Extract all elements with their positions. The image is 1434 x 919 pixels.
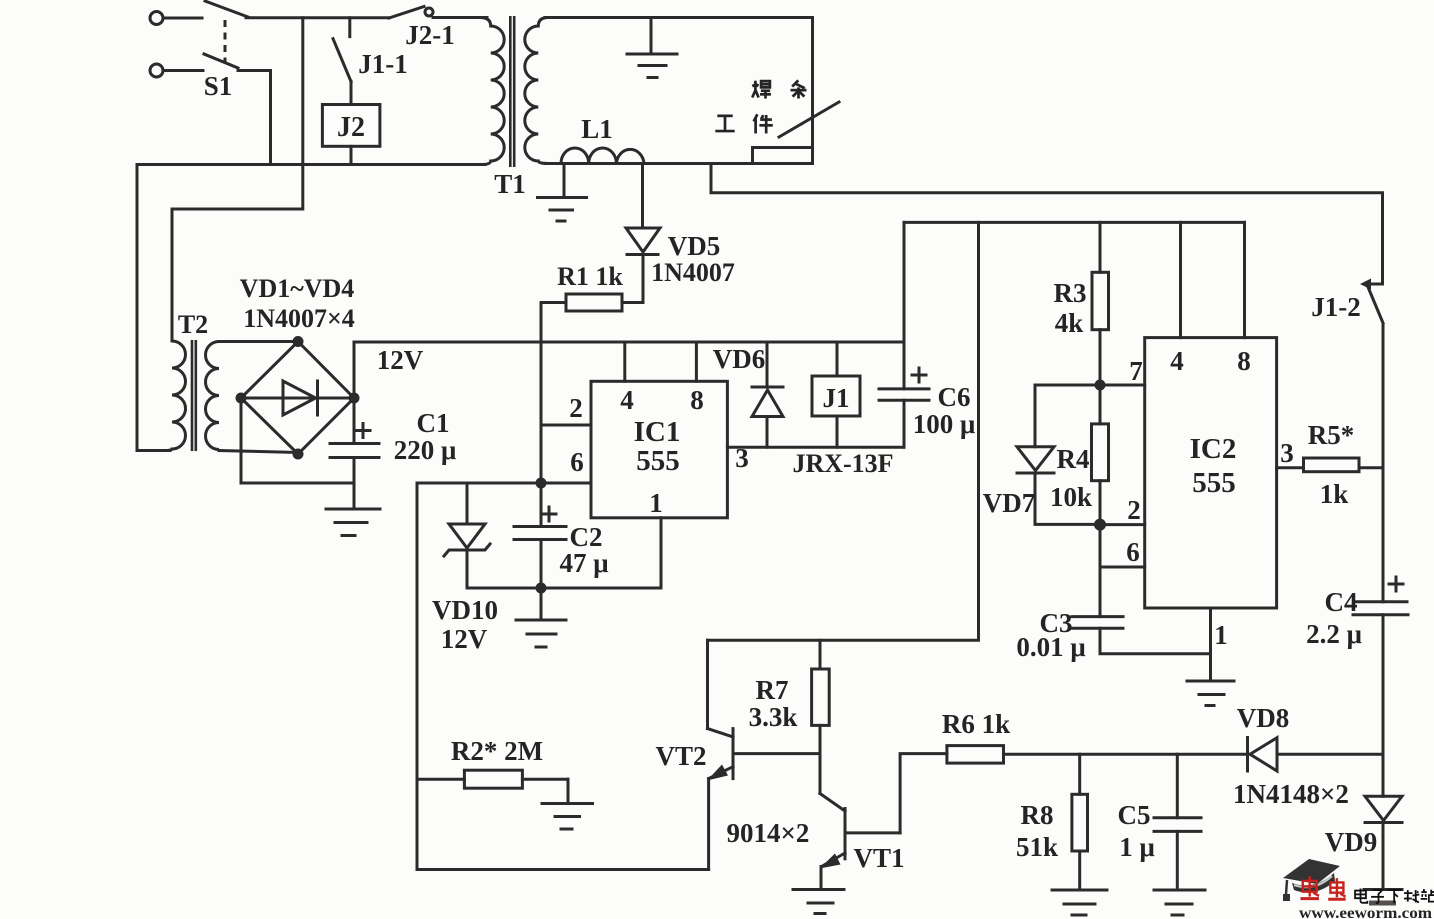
diode VD9 <box>1365 754 1402 889</box>
node bridge bottom <box>293 449 304 460</box>
svg-text:VD10: VD10 <box>432 595 498 625</box>
svg-text:1N4148×2: 1N4148×2 <box>1233 779 1349 809</box>
svg-text:VD7: VD7 <box>983 488 1036 518</box>
diode VD8 <box>1248 738 1384 772</box>
svg-text:1N4007: 1N4007 <box>651 258 735 287</box>
svg-text:VD1~VD4: VD1~VD4 <box>240 274 355 303</box>
IC1 pin 2 wire <box>541 393 591 425</box>
svg-text:J2-1: J2-1 <box>405 20 455 50</box>
wire center drop to T2 primary top <box>172 18 303 331</box>
node pin6/C2 <box>536 478 547 489</box>
node bridge right <box>349 393 360 404</box>
node pin2 <box>1094 519 1106 531</box>
logo graduation cap <box>1283 859 1340 901</box>
svg-text:12V: 12V <box>377 345 424 375</box>
node pin7 <box>1095 380 1106 391</box>
resistor R3 <box>1092 222 1109 385</box>
svg-text:2: 2 <box>569 393 583 423</box>
node bridge top <box>293 336 304 347</box>
svg-text:4: 4 <box>1170 346 1184 376</box>
transformer T1 secondary winding <box>525 18 548 164</box>
node C2 ground <box>536 583 547 594</box>
wire top phase <box>246 16 389 19</box>
ground under C5 <box>1154 890 1205 915</box>
svg-text:2.2 μ: 2.2 μ <box>1306 619 1362 649</box>
ground under IC2 pin1 <box>1187 681 1234 706</box>
transistor VT2 <box>707 729 820 781</box>
svg-text:T2: T2 <box>178 310 208 339</box>
svg-text:R3: R3 <box>1054 278 1087 308</box>
wire welder output tap <box>711 164 1383 285</box>
resistor R1 <box>541 294 643 311</box>
logo chongchong red characters <box>1300 876 1345 899</box>
workpiece plate <box>753 148 813 164</box>
resistor R6 <box>947 746 1249 764</box>
svg-text:7: 7 <box>1129 356 1143 386</box>
svg-text:C6: C6 <box>938 382 971 412</box>
switch S1 pole 1 blade <box>205 1 248 17</box>
wire left sense line down <box>416 483 419 870</box>
svg-text:6: 6 <box>1126 537 1140 567</box>
ground under VD9 <box>1364 890 1402 904</box>
svg-text:2: 2 <box>1127 495 1141 525</box>
wire VT1 base to R6 <box>900 754 947 833</box>
wire J2 coil to bottom rail <box>350 146 353 164</box>
wire VT2 emitter drop <box>707 779 710 870</box>
IC1 pin 6 wire <box>417 447 591 483</box>
svg-text:220 μ: 220 μ <box>394 435 457 465</box>
svg-text:3.3k: 3.3k <box>749 702 798 732</box>
electrode stroke <box>779 102 839 137</box>
svg-text:8: 8 <box>690 385 704 415</box>
svg-text:R4: R4 <box>1057 444 1090 474</box>
wire J2-1 to T1 <box>433 16 487 19</box>
IC2 pin 2 wire <box>1100 495 1145 525</box>
capacitor C3 <box>1072 567 1211 654</box>
wire mains bottom rail <box>137 163 485 166</box>
transformer T2 secondary winding <box>206 342 219 450</box>
diode VD7 branch <box>1017 385 1100 524</box>
svg-text:1N4007×4: 1N4007×4 <box>243 304 355 333</box>
svg-text:J1-1: J1-1 <box>358 49 408 79</box>
svg-text:555: 555 <box>636 445 680 477</box>
wire S1 pole2 to down corner <box>238 71 271 165</box>
bridge rectifier VD1-VD4 diamond <box>241 342 354 455</box>
svg-text:100 μ: 100 μ <box>913 409 976 439</box>
svg-text:R5*: R5* <box>1308 420 1355 450</box>
svg-text:R6 1k: R6 1k <box>942 709 1010 739</box>
C2 plus sign <box>542 507 556 521</box>
label 工件 (workpiece) <box>715 114 772 133</box>
svg-text:10k: 10k <box>1050 482 1092 512</box>
IC1 pin 3 wire <box>727 443 904 473</box>
svg-text:4k: 4k <box>1055 308 1084 338</box>
switch J1-2 <box>1360 279 1383 602</box>
switch S1 mechanical link (dashed) <box>224 20 227 63</box>
IC2 pin 7 wire <box>1100 356 1145 386</box>
svg-text:3: 3 <box>1280 438 1294 468</box>
wire bridge plus riser and 12V rail <box>354 342 904 398</box>
IC2 pin 3 wire and resistor R5 <box>1277 438 1383 472</box>
svg-text:VD8: VD8 <box>1237 703 1290 733</box>
wire bridge minus loop <box>241 398 354 483</box>
svg-text:8: 8 <box>1237 346 1251 376</box>
svg-text:VT1: VT1 <box>853 843 904 873</box>
wire secondary loop right <box>811 18 814 164</box>
ground under L1 left <box>538 164 587 222</box>
IC2 pin 4 riser <box>1170 222 1184 376</box>
transformer T2 primary winding <box>139 330 186 451</box>
svg-text:J1-2: J1-2 <box>1311 292 1361 322</box>
svg-text:C1: C1 <box>417 408 450 438</box>
capacitor C1 <box>330 398 379 509</box>
wire L1 tap down to VD5 <box>641 164 644 229</box>
ground under R8 <box>1052 890 1107 915</box>
wire T2 secondary bottom to bridge <box>219 451 298 453</box>
svg-text:555: 555 <box>1192 467 1236 499</box>
resistor R7 <box>812 640 830 753</box>
wire bottom return <box>417 868 709 871</box>
svg-text:9014×2: 9014×2 <box>727 818 810 848</box>
svg-text:51k: 51k <box>1016 832 1058 862</box>
svg-text:IC2: IC2 <box>1190 433 1237 465</box>
svg-text:S1: S1 <box>204 71 233 101</box>
transformer T1 primary winding <box>480 18 504 165</box>
wire R7 to VT1 collector <box>820 754 845 811</box>
svg-text:0.01 μ: 0.01 μ <box>1016 632 1085 662</box>
terminal input B <box>150 64 203 77</box>
svg-text:T1: T1 <box>494 169 526 199</box>
wire VT2 collector <box>706 640 709 728</box>
svg-text:J2: J2 <box>337 112 365 143</box>
diode VD6 <box>752 342 783 447</box>
resistor R2 <box>417 770 568 803</box>
switch J2-1 blade <box>389 7 433 19</box>
label 焊条 (welding rod) <box>752 80 806 98</box>
relay coil J1 <box>812 342 860 447</box>
svg-text:R2* 2M: R2* 2M <box>451 736 543 766</box>
ground under C1 <box>326 509 380 536</box>
wire R1 left drop <box>540 303 543 527</box>
svg-text:12V: 12V <box>441 624 488 654</box>
svg-text:1k: 1k <box>1320 479 1349 509</box>
IC2 555 timer <box>1145 338 1277 608</box>
ground under C2 <box>516 588 566 647</box>
IC2 pin 6 wire <box>1100 525 1145 567</box>
svg-text:JRX-13F: JRX-13F <box>792 449 893 478</box>
svg-text:R1 1k: R1 1k <box>557 262 623 291</box>
wire T2 secondary top to bridge <box>219 340 298 343</box>
svg-text:6: 6 <box>570 447 584 477</box>
svg-text:L1: L1 <box>581 114 613 144</box>
resistor R8 <box>1072 754 1088 890</box>
svg-text:VD6: VD6 <box>713 344 766 374</box>
IC1 pin 8 riser <box>690 342 704 415</box>
transformer T2 core <box>192 340 196 451</box>
svg-text:IC1: IC1 <box>634 416 681 448</box>
wire mid vertical feed <box>708 222 979 640</box>
svg-text:R8: R8 <box>1021 800 1054 830</box>
svg-text:C4: C4 <box>1325 587 1358 617</box>
svg-text:VT2: VT2 <box>655 741 706 771</box>
svg-text:47 μ: 47 μ <box>559 548 608 578</box>
logo site name 电子下载站 <box>1355 889 1434 904</box>
capacitor C6 <box>879 222 929 447</box>
svg-text:3: 3 <box>735 443 749 473</box>
transformer T1 core <box>510 16 514 167</box>
capacitor C4 <box>1353 602 1408 754</box>
svg-text:1: 1 <box>1214 620 1228 650</box>
C4 plus sign <box>1389 577 1403 591</box>
diode VD5 <box>626 228 660 303</box>
svg-text:4: 4 <box>620 385 634 415</box>
IC2 pin 8 riser <box>1237 222 1251 376</box>
svg-text:C5: C5 <box>1118 800 1151 830</box>
svg-text:1: 1 <box>649 488 663 518</box>
svg-text:R7: R7 <box>756 675 789 705</box>
capacitor C5 <box>1154 754 1201 890</box>
C1 plus sign <box>356 424 370 438</box>
IC1 pin 4 riser <box>620 342 634 415</box>
ground under R2 <box>542 804 593 830</box>
wire vdd rail 2 <box>904 221 1245 224</box>
terminal input A <box>150 12 202 25</box>
switch J1-1 <box>333 18 351 105</box>
C6 plus sign <box>912 368 926 382</box>
svg-text:www.eeworm.com: www.eeworm.com <box>1299 905 1433 919</box>
IC2 pin 1 drop <box>1211 608 1228 681</box>
wire left branch down to T2 <box>137 165 170 451</box>
svg-text:1 μ: 1 μ <box>1119 832 1155 862</box>
wire secondary loop top <box>545 16 813 19</box>
resistor R4 <box>1092 385 1109 525</box>
svg-text:VD5: VD5 <box>668 231 721 261</box>
inductor L1 <box>561 148 644 164</box>
switch S1 pole 2 blade <box>204 54 238 68</box>
IC1 555 timer <box>591 381 727 518</box>
wire C2 bottom bus <box>467 587 661 590</box>
svg-text:VD9: VD9 <box>1325 827 1378 857</box>
transistor VT1 <box>820 809 901 869</box>
zener VD10 <box>444 483 490 588</box>
ground T1 top <box>627 18 677 78</box>
relay coil J2 <box>322 105 380 147</box>
node bridge left <box>236 393 247 404</box>
svg-text:J1: J1 <box>823 383 850 413</box>
IC1 pin 1 drop <box>649 488 663 588</box>
capacitor C2 <box>514 527 566 589</box>
wire VT1 emitter to ground <box>793 867 844 914</box>
wire secondary loop bottom <box>545 162 813 165</box>
